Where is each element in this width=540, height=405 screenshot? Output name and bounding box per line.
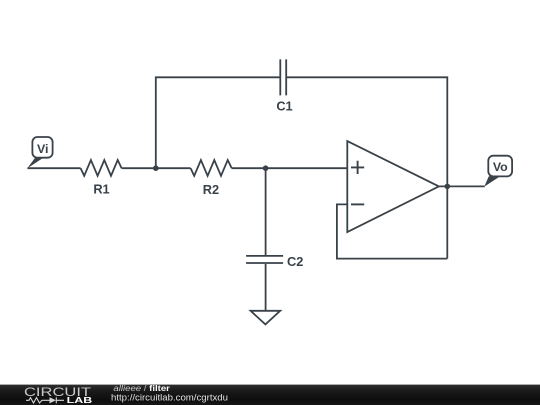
svg-text:Vo: Vo bbox=[493, 160, 508, 174]
svg-text:http://circuitlab.com/cgrtxdu: http://circuitlab.com/cgrtxdu bbox=[111, 392, 228, 402]
capacitor C1 plates bbox=[280, 59, 286, 95]
flag Vo tail bbox=[484, 176, 500, 186]
ground bbox=[251, 311, 281, 325]
resistor R1 bbox=[81, 160, 122, 176]
footer bar bbox=[0, 385, 540, 405]
wire top loop left vertical bbox=[156, 77, 280, 168]
op-amp U1 triangle bbox=[347, 141, 439, 232]
svg-text:Vi: Vi bbox=[37, 142, 48, 156]
svg-text:C1: C1 bbox=[276, 99, 292, 114]
capacitor C2 plates bbox=[246, 256, 283, 263]
wire node to C2 top plate bbox=[265, 168, 267, 255]
wire feedback bottom and minus stub bbox=[337, 204, 447, 258]
wire op-amp output to Vo bbox=[439, 185, 485, 187]
flag Vi box bbox=[32, 137, 52, 158]
resistor R2 bbox=[191, 160, 232, 176]
wire R1 to R2 bbox=[122, 167, 191, 169]
svg-text:R2: R2 bbox=[203, 182, 219, 197]
flag Vo box bbox=[488, 156, 512, 177]
wire input from Vi to R1 bbox=[27, 167, 80, 169]
flag Vi tail bbox=[27, 158, 43, 169]
wire C2 bottom plate to ground bbox=[265, 264, 267, 310]
wire top loop right segment and right vertical bbox=[286, 77, 447, 258]
node output junction bbox=[445, 184, 451, 190]
svg-text:LAB: LAB bbox=[67, 395, 93, 405]
svg-text:R1: R1 bbox=[93, 181, 109, 196]
op-amp minus sign bbox=[351, 203, 364, 205]
wire R2 to op-amp plus input bbox=[232, 167, 348, 169]
op-amp plus sign bbox=[351, 161, 364, 174]
svg-text:C2: C2 bbox=[287, 254, 303, 269]
node junction R1-R2-C1 bbox=[153, 165, 159, 171]
logo diode bbox=[50, 397, 57, 403]
node junction R2-C2 bbox=[263, 165, 269, 171]
logo resistor zigzag bbox=[26, 398, 50, 403]
